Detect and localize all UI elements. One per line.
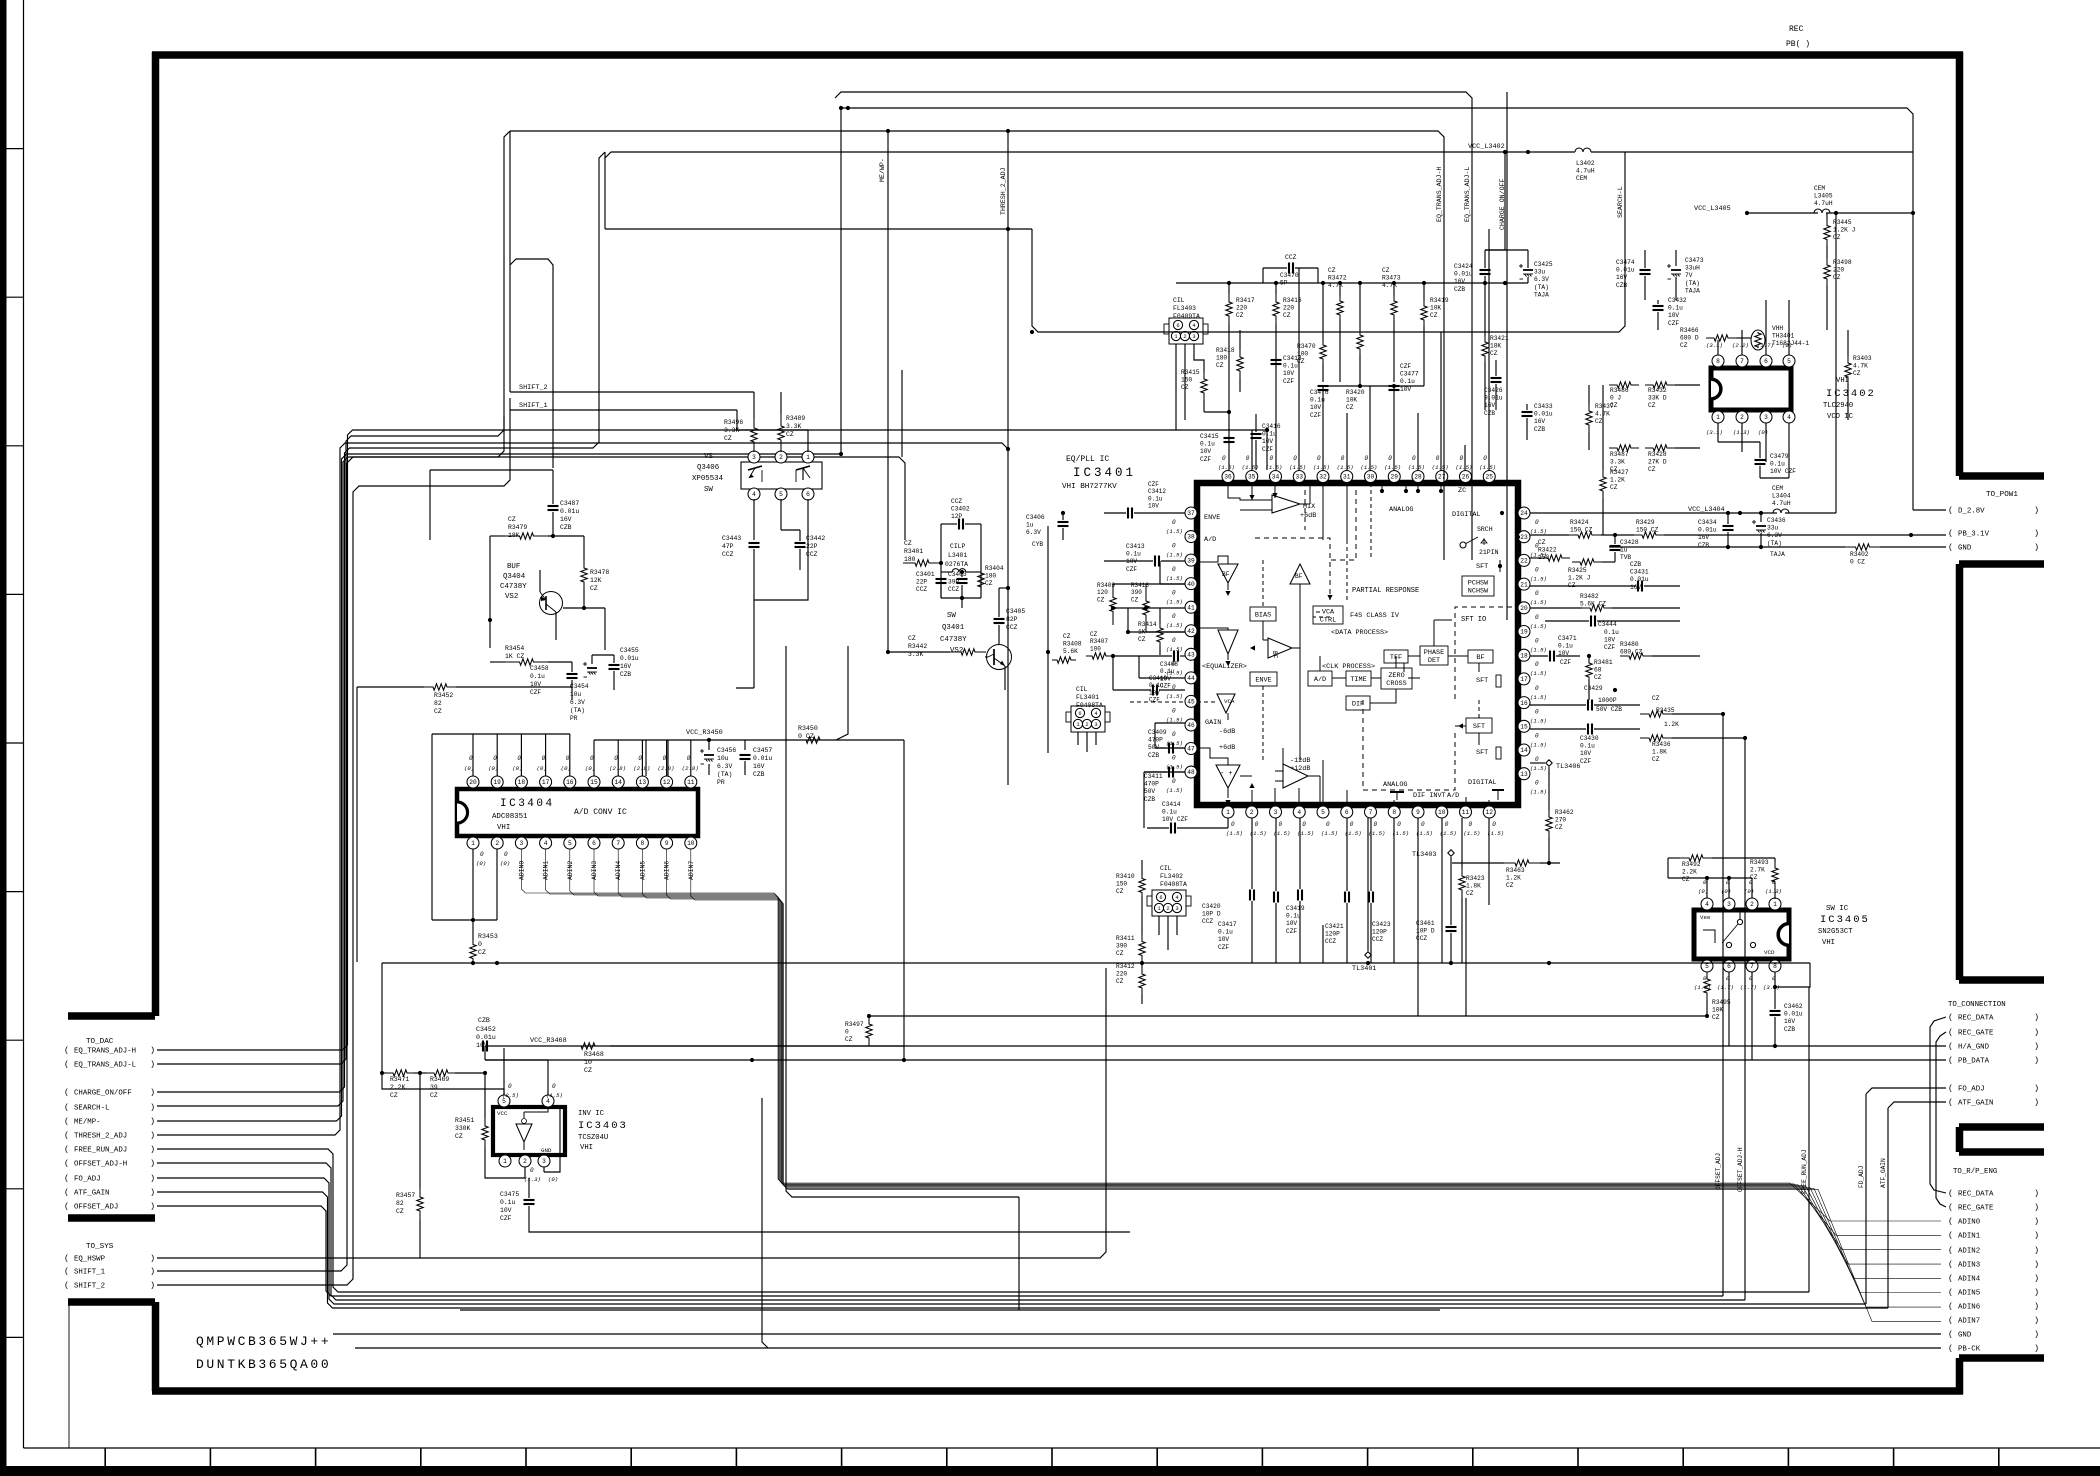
IC3403 top pins (498, 1095, 510, 1107)
svg-text:(: ( (1948, 1217, 1953, 1227)
svg-text:0 CZ: 0 CZ (1850, 559, 1865, 566)
wire y470 rail (430, 469, 553, 471)
svg-text:0: 0 (1535, 661, 1539, 668)
svg-text:46: 46 (1187, 722, 1195, 729)
svg-text:18: 18 (1520, 652, 1528, 659)
svg-text:(: ( (1948, 1028, 1953, 1038)
svg-text:21: 21 (1520, 581, 1528, 588)
svg-text:(1.5): (1.5) (1530, 670, 1547, 677)
resistor R3453 (470, 940, 476, 963)
svg-text:THRESH_2_ADJ: THRESH_2_ADJ (74, 1133, 127, 1141)
svg-text:8: 8 (1392, 809, 1396, 816)
svg-text:VHI: VHI (580, 1144, 593, 1152)
svg-text:(: ( (1948, 1042, 1953, 1052)
svg-text:17: 17 (1520, 676, 1528, 683)
svg-text:(1.5): (1.5) (1479, 464, 1496, 471)
svg-text:37: 37 (1187, 510, 1195, 517)
svg-text:10V: 10V (1200, 448, 1211, 455)
resistor R3423 (1459, 868, 1465, 898)
svg-text:R3481: R3481 (1594, 659, 1613, 666)
wire IC3401 top pin risers (1251, 430, 1253, 470)
svg-text:CZ: CZ (1116, 950, 1124, 957)
svg-text:10V: 10V (1400, 386, 1411, 393)
svg-text:C3415: C3415 (1200, 433, 1219, 440)
svg-text:180: 180 (904, 556, 916, 563)
svg-text:): ) (150, 1174, 155, 1184)
svg-text:1: 1 (806, 454, 810, 461)
svg-text:0: 0 (1365, 455, 1369, 462)
svg-text:REC_DATA: REC_DATA (1958, 1015, 1994, 1023)
svg-text:R3410: R3410 (1116, 873, 1135, 880)
svg-text:0: 0 (1302, 821, 1306, 828)
IC3401 internal equalizer col (1227, 583, 1229, 590)
IC3405 switch (1737, 919, 1742, 924)
svg-text:R3473: R3473 (1382, 275, 1401, 282)
svg-text:): ) (2034, 529, 2039, 539)
resistor R3429 (1634, 532, 1664, 538)
svg-text:(1.5): (1.5) (1313, 464, 1330, 471)
resistor R3413 (1143, 584, 1149, 632)
bottom ruler tick marks (104, 1448, 106, 1468)
svg-text:BUF: BUF (507, 563, 520, 571)
svg-text:0: 0 (1246, 455, 1250, 462)
wire TO_DAC fan-out bundle (157, 1149, 1809, 1292)
IC3401 internal time box (1346, 671, 1371, 686)
svg-text:0: 0 (1350, 821, 1354, 828)
wire ME/WP vertical (840, 108, 842, 454)
svg-text:CZ: CZ (1138, 636, 1146, 643)
svg-text:SW: SW (704, 486, 713, 494)
svg-text:BF: BF (1295, 573, 1303, 580)
svg-text:CZ: CZ (1652, 695, 1660, 702)
svg-text:CZ: CZ (1682, 876, 1690, 883)
svg-text:0: 0 (1231, 821, 1235, 828)
svg-text:C4738Y: C4738Y (940, 636, 967, 644)
svg-text:R3486: R3486 (1610, 387, 1629, 394)
svg-text:C3433: C3433 (1534, 403, 1553, 410)
resistor R3489 (778, 414, 784, 452)
wire ADIN bus bundle (521, 849, 1941, 1221)
svg-text:CZ: CZ (508, 516, 516, 523)
svg-text:0.1u: 0.1u (1148, 495, 1163, 502)
svg-text:31: 31 (1343, 474, 1351, 481)
svg-text:-12dB: -12dB (1290, 757, 1310, 765)
IC3401 internal eq amp (1218, 630, 1238, 654)
svg-text:CZ: CZ (904, 540, 912, 547)
svg-text:CZ: CZ (1116, 888, 1124, 895)
testpoint TL3401 (1365, 952, 1371, 958)
svg-text:F0408TA: F0408TA (1160, 881, 1187, 888)
wire offset_adj vertical (1722, 714, 1724, 1296)
svg-text:CZ: CZ (786, 431, 794, 438)
svg-text:SFT: SFT (1476, 563, 1488, 571)
svg-text:C3475: C3475 (500, 1191, 519, 1198)
svg-text:SHIFT_1: SHIFT_1 (74, 1269, 106, 1277)
svg-text:EQ/PLL IC: EQ/PLL IC (1066, 455, 1109, 464)
svg-text:9: 9 (665, 840, 669, 847)
svg-text:CZ: CZ (1538, 539, 1546, 546)
svg-text:0: 0 (1535, 566, 1539, 573)
svg-text:16V: 16V (753, 763, 765, 770)
wire c3487 feed (510, 259, 553, 468)
svg-text:38: 38 (1187, 534, 1195, 541)
IC3401 body (1197, 483, 1518, 805)
schematic frame right edge lower (1956, 1358, 1964, 1394)
IC3401 internal sft wires (1478, 663, 1480, 672)
svg-text:L3401: L3401 (948, 552, 967, 559)
resistor R3462 (1546, 810, 1552, 838)
svg-text:0: 0 (517, 755, 521, 762)
svg-text:ADIN2: ADIN2 (567, 861, 574, 880)
svg-text:0: 0 (542, 755, 546, 762)
svg-text:R3479: R3479 (508, 524, 527, 531)
svg-text:SRCH: SRCH (1477, 526, 1493, 533)
svg-text:C3401: C3401 (916, 571, 935, 578)
svg-text:C3405: C3405 (1006, 608, 1025, 615)
svg-text:C3432: C3432 (1668, 297, 1687, 304)
svg-text:ENVE: ENVE (1204, 514, 1220, 522)
svg-text:25: 25 (1486, 474, 1494, 481)
svg-text:R3471: R3471 (390, 1076, 409, 1083)
svg-text:): ) (2034, 1231, 2039, 1241)
svg-text:0: 0 (1421, 821, 1425, 828)
wire bus y229 (605, 228, 1032, 230)
svg-text:(: ( (1948, 1098, 1953, 1108)
svg-text:0: 0 (663, 755, 667, 762)
wire top bus y152 (605, 152, 1472, 158)
svg-text:(1.5): (1.5) (1530, 718, 1547, 725)
svg-text:4: 4 (1175, 895, 1178, 901)
schematic frame left edge upper (152, 52, 160, 1016)
svg-text:R3414: R3414 (1138, 621, 1157, 628)
svg-text:0: 0 (1172, 613, 1176, 620)
svg-text:TL3403: TL3403 (1412, 851, 1436, 859)
svg-text:C3479: C3479 (1770, 453, 1789, 460)
svg-text:50V CZB: 50V CZB (1596, 706, 1622, 713)
svg-text:1.2K: 1.2K (1664, 721, 1679, 728)
svg-text:0: 0 (1445, 821, 1449, 828)
resistor R3404 (978, 566, 984, 594)
resistor R3468 (566, 1043, 610, 1049)
svg-text:20: 20 (469, 779, 477, 786)
svg-text:CCZ: CCZ (1202, 918, 1213, 925)
IC3401 internal 12dB amp (1283, 764, 1308, 788)
svg-text:7: 7 (1369, 809, 1373, 816)
svg-text:10K: 10K (1430, 305, 1441, 312)
svg-text:CZ: CZ (1594, 674, 1602, 681)
svg-text:(1.5): (1.5) (1464, 830, 1481, 837)
svg-text:150: 150 (1181, 377, 1192, 384)
resistor R3414 (1157, 624, 1163, 646)
wire ic3402 pins (1717, 340, 1719, 355)
IC3401 internal tff box (1384, 650, 1408, 663)
svg-text:C3408: C3408 (1160, 661, 1178, 668)
svg-text:R3452: R3452 (434, 692, 453, 699)
svg-text:CZF: CZF (1218, 944, 1229, 951)
svg-text:CZ: CZ (1328, 267, 1336, 274)
svg-text:C3454: C3454 (570, 683, 589, 690)
svg-text:CZB: CZB (1148, 752, 1159, 759)
capacitor C3430 (1587, 724, 1589, 735)
svg-text:(: ( (64, 1046, 69, 1056)
IC3401 internal pchsw box (1462, 576, 1494, 596)
wire ic3405 pin6 (1728, 972, 1730, 1046)
capacitor C3454 (587, 667, 597, 669)
svg-text:C3434: C3434 (1698, 519, 1717, 526)
svg-text:EQ_HSWP: EQ_HSWP (74, 1256, 106, 1264)
svg-text:CZ: CZ (1712, 1014, 1720, 1021)
svg-text:1K CZ: 1K CZ (505, 653, 524, 660)
svg-text:CZ: CZ (396, 1208, 404, 1215)
svg-text:CZ: CZ (1490, 350, 1498, 357)
svg-text:): ) (150, 1145, 155, 1155)
wire pin40 stub (1160, 583, 1185, 585)
capacitor C3410 (1152, 685, 1154, 696)
svg-text:VCC_R3450: VCC_R3450 (686, 729, 723, 737)
svg-text:BF: BF (1222, 571, 1230, 578)
wire IC3403 pins up (503, 1048, 505, 1095)
wire top bus y131 (510, 131, 1444, 560)
page bottom black bar (0, 1466, 2100, 1476)
svg-text:CZ: CZ (1090, 631, 1098, 638)
wire SHIFT_1 horiz (510, 409, 737, 411)
capacitor C3423 (1368, 892, 1370, 903)
resistor R3409 (1110, 584, 1116, 625)
wire pin47 stub (1155, 747, 1185, 749)
svg-text:0: 0 (530, 1167, 534, 1174)
capacitor C3424 (1480, 269, 1491, 271)
svg-text:(: ( (1948, 1344, 1953, 1354)
resistor R3497 (866, 1016, 872, 1046)
svg-text:VCC: VCC (497, 1110, 508, 1117)
svg-text:0: 0 (552, 1083, 556, 1090)
svg-text:FL3403: FL3403 (1173, 305, 1196, 312)
svg-text:CZ: CZ (908, 635, 916, 642)
svg-text:41: 41 (1187, 604, 1195, 611)
svg-text:4: 4 (752, 491, 756, 498)
svg-text:CZ: CZ (1506, 882, 1514, 889)
svg-text:(TA): (TA) (1534, 284, 1549, 291)
svg-text:150: 150 (1116, 881, 1127, 888)
frame stub right y1358 (TO_R/P_ENG bottom) (1959, 1354, 2044, 1362)
svg-text:CEM: CEM (1772, 485, 1783, 492)
svg-text:(1.5): (1.5) (1392, 830, 1409, 837)
svg-text:): ) (150, 1281, 155, 1291)
svg-text:1: 1 (503, 1158, 507, 1165)
svg-text:INV IC: INV IC (578, 1110, 605, 1118)
wire ATF_GAIN (1888, 1102, 1946, 1108)
svg-text:4.7uH: 4.7uH (1576, 168, 1595, 175)
svg-text:C3414: C3414 (1162, 801, 1181, 808)
svg-text:C4738Y: C4738Y (500, 583, 527, 591)
svg-text:REC_DATA: REC_DATA (1958, 1191, 1994, 1199)
svg-text:10V: 10V (1148, 503, 1159, 510)
svg-text:CCZ: CCZ (916, 586, 927, 593)
svg-text:3: 3 (1094, 722, 1097, 728)
resistor R3452 (424, 684, 456, 690)
svg-text:680 D: 680 D (1680, 335, 1699, 342)
svg-text:NCHSW: NCHSW (1468, 587, 1489, 595)
svg-text:0: 0 (1535, 519, 1539, 526)
svg-text:3: 3 (520, 840, 524, 847)
svg-text:CEM: CEM (1814, 185, 1825, 192)
wire PB_DATA bus (904, 1059, 1946, 1061)
svg-text:C3476: C3476 (1310, 389, 1329, 396)
capacitor C3420 (1249, 890, 1251, 901)
svg-text:(0): (0) (548, 1176, 558, 1183)
svg-text:220: 220 (1283, 305, 1294, 312)
svg-text:VHI: VHI (1822, 939, 1835, 947)
svg-text:FD_ADJ: FD_ADJ (1858, 1166, 1865, 1188)
svg-text:SFT: SFT (1476, 677, 1488, 685)
svg-text:0: 0 (1535, 590, 1539, 597)
svg-text:CYB: CYB (1032, 541, 1043, 548)
svg-text:): ) (150, 1060, 155, 1070)
svg-text:R3423: R3423 (1466, 875, 1485, 882)
svg-text:10V CZF: 10V CZF (1770, 468, 1796, 475)
svg-text:): ) (2034, 1084, 2039, 1094)
svg-text:A/D: A/D (1447, 792, 1459, 800)
svg-text:CZB: CZB (1616, 282, 1627, 289)
svg-text:44: 44 (1187, 675, 1195, 682)
svg-text:(1.5): (1.5) (1530, 623, 1547, 630)
Q3406 body (741, 462, 822, 489)
svg-text:CZ: CZ (478, 949, 486, 956)
svg-text:CZF: CZF (1286, 928, 1297, 935)
svg-text:16V: 16V (620, 663, 631, 670)
svg-text:10V: 10V (1604, 637, 1615, 644)
svg-text:2.2K: 2.2K (390, 1084, 406, 1091)
svg-text:CZF: CZF (1560, 659, 1571, 666)
wire pin24 rail (1530, 512, 1777, 514)
wire buf emitter (555, 618, 557, 640)
svg-text:CZF: CZF (1580, 758, 1591, 765)
svg-text:R3419: R3419 (1430, 297, 1449, 304)
svg-text:A/D: A/D (1204, 536, 1216, 544)
svg-text:15: 15 (1520, 723, 1528, 730)
svg-text:180: 180 (985, 573, 996, 580)
svg-text:(1.5): (1.5) (1530, 789, 1547, 796)
svg-text:CZ: CZ (1652, 756, 1660, 763)
svg-text:0: 0 (687, 755, 691, 762)
svg-text:TH3401: TH3401 (1772, 333, 1795, 340)
page left margin line (23, 0, 25, 1448)
svg-text:(1.5): (1.5) (1456, 464, 1473, 471)
svg-text:0.1u: 0.1u (1770, 461, 1785, 468)
svg-text:R3487: R3487 (1610, 451, 1629, 458)
svg-text:CCZ: CCZ (948, 586, 959, 593)
svg-text:CZF: CZF (1149, 697, 1160, 704)
wire pin45 stub dashed (1130, 701, 1185, 703)
IC3401 internal phase wire (1433, 620, 1435, 646)
svg-text:SHIFT_1: SHIFT_1 (519, 402, 548, 410)
svg-text:ADIN2: ADIN2 (1958, 1248, 1980, 1256)
svg-text:): ) (2034, 1302, 2039, 1312)
svg-text:C3413: C3413 (1126, 543, 1145, 550)
svg-text:F4S CLASS IV: F4S CLASS IV (1350, 612, 1400, 620)
svg-text:TAJA: TAJA (1770, 551, 1785, 558)
svg-text:8: 8 (1716, 358, 1720, 365)
wire x510 vertical (509, 131, 511, 392)
svg-text:(1.5): (1.5) (1530, 575, 1547, 582)
IC3401 internal dif box (1346, 696, 1370, 710)
svg-text:1u: 1u (1620, 547, 1628, 554)
svg-text:(1.5): (1.5) (1530, 765, 1547, 772)
svg-text:(1.5): (1.5) (1432, 464, 1449, 471)
svg-text:ADIN7: ADIN7 (688, 861, 695, 880)
wire rail y283 (1176, 282, 1528, 284)
svg-text:14: 14 (1520, 747, 1528, 754)
svg-text:VHI BH7277KV: VHI BH7277KV (1062, 483, 1117, 491)
svg-text:(3.1): (3.1) (1706, 342, 1723, 349)
svg-text:0: 0 (1172, 590, 1176, 597)
thermistor TH3401 (1751, 330, 1765, 350)
svg-text:CEM: CEM (1576, 175, 1587, 182)
svg-text:14: 14 (614, 779, 622, 786)
svg-text:21PIN: 21PIN (1479, 549, 1499, 556)
IC3401 internal enve box (1250, 672, 1277, 686)
svg-text:0: 0 (469, 755, 473, 762)
svg-text:R3412: R3412 (1116, 963, 1135, 970)
junction dots misc (1503, 281, 1507, 285)
svg-text:10u: 10u (717, 755, 729, 762)
svg-text:6: 6 (1159, 895, 1162, 901)
svg-text:): ) (150, 1202, 155, 1212)
svg-text:17: 17 (542, 779, 550, 786)
wire PB-CK bottom (355, 1347, 1941, 1349)
resistor R3486 (1609, 382, 1639, 388)
wire IC3401 bottom pin drops (1251, 925, 1253, 963)
svg-text:TO_POW1: TO_POW1 (1986, 491, 2018, 499)
resistor R3419 (1421, 300, 1427, 326)
svg-text:10P D: 10P D (1202, 911, 1221, 918)
svg-text:L3405: L3405 (1814, 193, 1833, 200)
wire SHIFT_1 run (157, 416, 504, 1271)
svg-text:16V: 16V (1484, 402, 1495, 409)
capacitor C3414 (1170, 823, 1172, 834)
svg-text:CZF: CZF (1400, 363, 1411, 370)
svg-text:ADC08351: ADC08351 (492, 813, 528, 821)
svg-text:(2.8): (2.8) (633, 765, 650, 772)
resistor R3472 (1337, 296, 1343, 320)
svg-text:0: 0 (1172, 731, 1176, 738)
resistor R3424 (1569, 532, 1601, 538)
svg-text:(: ( (64, 1117, 69, 1127)
svg-text:13: 13 (1520, 771, 1528, 778)
wire IC3404 top pin bus (432, 733, 570, 735)
svg-text:VHH: VHH (1772, 325, 1783, 332)
wire ic3405 top pins (1706, 878, 1708, 898)
svg-text:4: 4 (1787, 414, 1791, 421)
svg-text:3: 3 (1764, 414, 1768, 421)
svg-text:27: 27 (1438, 474, 1446, 481)
svg-text:R3457: R3457 (396, 1192, 415, 1199)
svg-text:CIL: CIL (1076, 686, 1088, 693)
IC3401 internal vca amp (1217, 694, 1235, 713)
svg-text:CZ: CZ (455, 1133, 463, 1140)
svg-text:0: 0 (504, 851, 508, 858)
wire pin48 stub (1144, 771, 1185, 773)
wire THRESH_2_ADJ vertical (1006, 129, 1010, 133)
svg-text:CZ: CZ (724, 435, 732, 442)
capacitor C3415 (1224, 437, 1235, 439)
capacitor C3442 (795, 542, 806, 544)
resistor R3402 (1845, 544, 1880, 550)
svg-text:): ) (2034, 1260, 2039, 1270)
resistor R3401 (903, 560, 941, 566)
svg-text:ADIN1: ADIN1 (1958, 1233, 1981, 1241)
svg-text:220: 220 (1116, 971, 1127, 978)
